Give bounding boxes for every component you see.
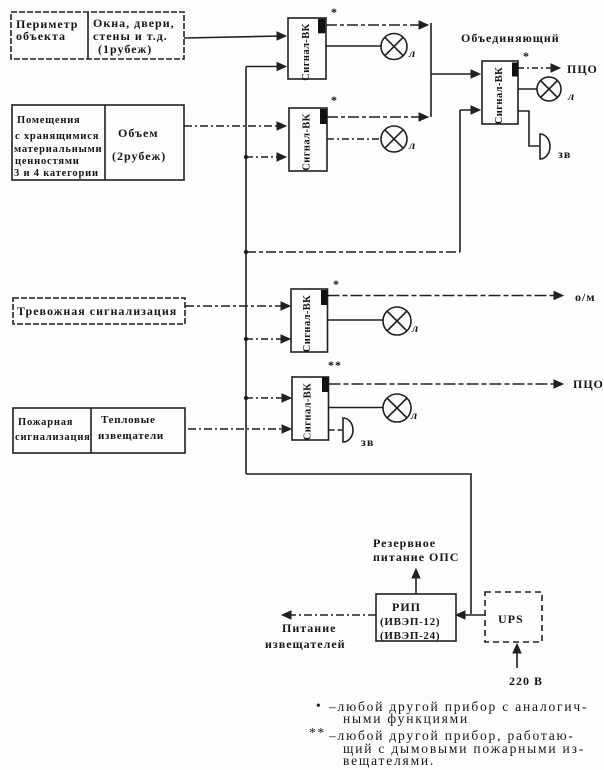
lamp L5 xyxy=(383,394,411,422)
svg-text:Объединяющий: Объединяющий xyxy=(461,31,560,45)
label Питание извещателей xyxy=(265,621,346,651)
svg-text:Резервное: Резервное xyxy=(373,536,436,550)
wire PU top output to ПЦО xyxy=(518,64,560,72)
box C "Тревожная сигнализация" xyxy=(13,298,185,324)
wire PU to lamp L3 xyxy=(518,88,537,90)
bus bottom run to right xyxy=(246,474,471,614)
block P3 label xyxy=(302,277,340,352)
svg-text:л: л xyxy=(410,408,418,422)
wire box A to P1 xyxy=(184,32,286,40)
svg-text:зв: зв xyxy=(361,435,374,449)
wire join vertical xyxy=(430,23,432,117)
svg-text:Питание: Питание xyxy=(282,621,336,635)
wire bus to P4 input1 xyxy=(244,394,291,402)
svg-text:Сигнал-ВК: Сигнал-ВК xyxy=(494,67,505,124)
svg-text:л: л xyxy=(567,89,575,103)
svg-text:Окна, двери,: Окна, двери, xyxy=(93,16,175,30)
svg-text:Сигнал-ВК: Сигнал-ВК xyxy=(303,383,314,440)
lamp L4 xyxy=(383,307,411,335)
wire box B to P2 input1 xyxy=(184,122,286,130)
speaker S2 xyxy=(343,418,353,442)
svg-text:л: л xyxy=(411,321,419,335)
svg-text:ными функциями: ными функциями xyxy=(343,711,469,726)
svg-text:сигнализация: сигнализация xyxy=(15,432,91,443)
block P2 Сигнал-ВК (second) xyxy=(289,108,327,171)
svg-text:извещатели: извещатели xyxy=(98,430,164,442)
label ПЦО (top) xyxy=(567,62,598,76)
block P1 Сигнал-ВК (top) xyxy=(288,18,326,79)
block P3 Сигнал-ВК (alarm) xyxy=(291,289,328,352)
block P1 label xyxy=(301,5,338,81)
svg-text:вещателями.: вещателями. xyxy=(343,753,435,768)
svg-text:Помещения: Помещения xyxy=(17,115,81,126)
block PU Объединяющий Сигнал-ВК xyxy=(482,61,518,124)
box A "Периметр объекта | Окна, двери..." xyxy=(11,12,184,59)
speaker S1 xyxy=(540,134,550,159)
footnote marker 1 xyxy=(316,698,588,726)
svg-text:ПЦО: ПЦО xyxy=(573,377,604,391)
lamp L2 label xyxy=(408,138,416,152)
svg-text:Тревожная сигнализация: Тревожная сигнализация xyxy=(17,304,177,318)
wire P3 top output to о/м xyxy=(328,292,564,300)
svg-text:UPS: UPS xyxy=(498,612,524,626)
wire join to PU input1 xyxy=(431,70,480,78)
svg-text:*: * xyxy=(331,5,338,19)
svg-text:стены и т.д.: стены и т.д. xyxy=(93,29,168,43)
svg-text:с хранящимися: с хранящимися xyxy=(15,131,99,142)
block P2 label xyxy=(302,93,339,171)
footnote marker 2 xyxy=(309,725,585,768)
lamp L4 label xyxy=(411,321,419,335)
wire P4 top output to ПЦО xyxy=(329,380,564,388)
block P4 Сигнал-ВК (fire) xyxy=(292,377,329,440)
svg-text:Пожарная: Пожарная xyxy=(18,417,73,428)
speaker S1 label xyxy=(558,147,571,161)
wire 220V to UPS xyxy=(513,644,521,668)
block PU labels xyxy=(461,31,560,124)
wire P1 to lamp L1 xyxy=(326,45,381,47)
svg-text:объекта: объекта xyxy=(16,29,66,43)
box C text xyxy=(17,304,177,318)
svg-text:л: л xyxy=(408,46,416,60)
speaker S2 label xyxy=(361,435,374,449)
svg-text:Сигнал-ВК: Сигнал-ВК xyxy=(301,23,312,80)
wire box C to P3 xyxy=(185,302,290,310)
lamp L1 label xyxy=(408,46,416,60)
box B text xyxy=(14,115,166,179)
wire PU input2 from bus xyxy=(244,106,480,254)
block P4 label xyxy=(303,358,343,440)
svg-text:материальными: материальными xyxy=(14,144,102,155)
wire P1 top output xyxy=(326,21,428,29)
label 220 В xyxy=(509,674,543,688)
svg-text:*: * xyxy=(331,93,338,107)
box UPS text xyxy=(498,612,524,626)
svg-text:*: * xyxy=(333,277,340,291)
svg-text:о/м: о/м xyxy=(575,290,596,304)
svg-text:извещателей: извещателей xyxy=(265,637,346,651)
box RIP РИП xyxy=(376,594,456,641)
box B "Помещения ... | Объем (2рубеж)" xyxy=(12,105,184,180)
label Резервное питание ОПС xyxy=(373,536,459,564)
svg-text:220 В: 220 В xyxy=(509,674,543,688)
box D "Пожарная сигнализация | Тепловые извещатели" xyxy=(13,408,185,453)
wire P3 to lamp L4 xyxy=(328,319,384,321)
svg-text:(ИВЭП-12): (ИВЭП-12) xyxy=(380,616,440,628)
lamp L3 label xyxy=(567,89,575,103)
svg-text:(2рубеж): (2рубеж) xyxy=(112,149,166,163)
wire PU to speaker S1 xyxy=(518,111,539,146)
svg-text:л: л xyxy=(408,138,416,152)
svg-text:Сигнал-ВК: Сигнал-ВК xyxy=(302,113,313,170)
wire bus to P2 input2 xyxy=(244,153,286,161)
svg-text:*: * xyxy=(523,49,530,63)
lamp L5 label xyxy=(410,408,418,422)
wire UPS to RIP xyxy=(456,611,485,619)
wire box D to P4 input2 xyxy=(188,425,291,433)
svg-text:**: ** xyxy=(309,725,326,740)
svg-text:ПЦО: ПЦО xyxy=(567,62,598,76)
svg-text:Объем: Объем xyxy=(118,126,159,140)
wire P4 to lamp L5 xyxy=(329,407,384,409)
wire bus top to P1 input2 xyxy=(246,63,286,71)
svg-text:(1рубеж): (1рубеж) xyxy=(98,42,152,56)
wire RIP left (power to detectors) xyxy=(282,611,376,619)
svg-text:(ИВЭП-24): (ИВЭП-24) xyxy=(380,630,440,642)
svg-text:Сигнал-ВК: Сигнал-ВК xyxy=(302,295,313,352)
svg-text:РИП: РИП xyxy=(392,600,421,614)
lamp L3 xyxy=(537,77,561,101)
svg-text:зв: зв xyxy=(558,147,571,161)
svg-text:3 и 4 категории: 3 и 4 категории xyxy=(14,168,99,179)
svg-text:**: ** xyxy=(328,358,342,372)
label ПЦО (bottom) xyxy=(573,377,604,391)
wire P2 top output xyxy=(327,113,428,121)
lamp L2 xyxy=(381,126,407,152)
box UPS xyxy=(485,592,542,642)
box D text xyxy=(15,414,164,443)
svg-text:ценностями: ценностями xyxy=(15,156,80,167)
label о/м xyxy=(575,290,596,304)
lamp L1 xyxy=(381,34,407,60)
svg-text:•: • xyxy=(316,698,323,713)
bus vertical main xyxy=(245,67,247,475)
box A text xyxy=(16,16,175,56)
svg-text:Тепловые: Тепловые xyxy=(101,414,156,426)
wire P4 to speaker S2 xyxy=(329,429,343,431)
box RIP text xyxy=(380,600,440,642)
svg-text:питание ОПС: питание ОПС xyxy=(373,550,459,564)
wire P2 to lamp L2 xyxy=(327,138,381,140)
wire RIP up (reserve power) xyxy=(412,569,420,594)
wire bus to P3 input2 xyxy=(244,335,290,343)
